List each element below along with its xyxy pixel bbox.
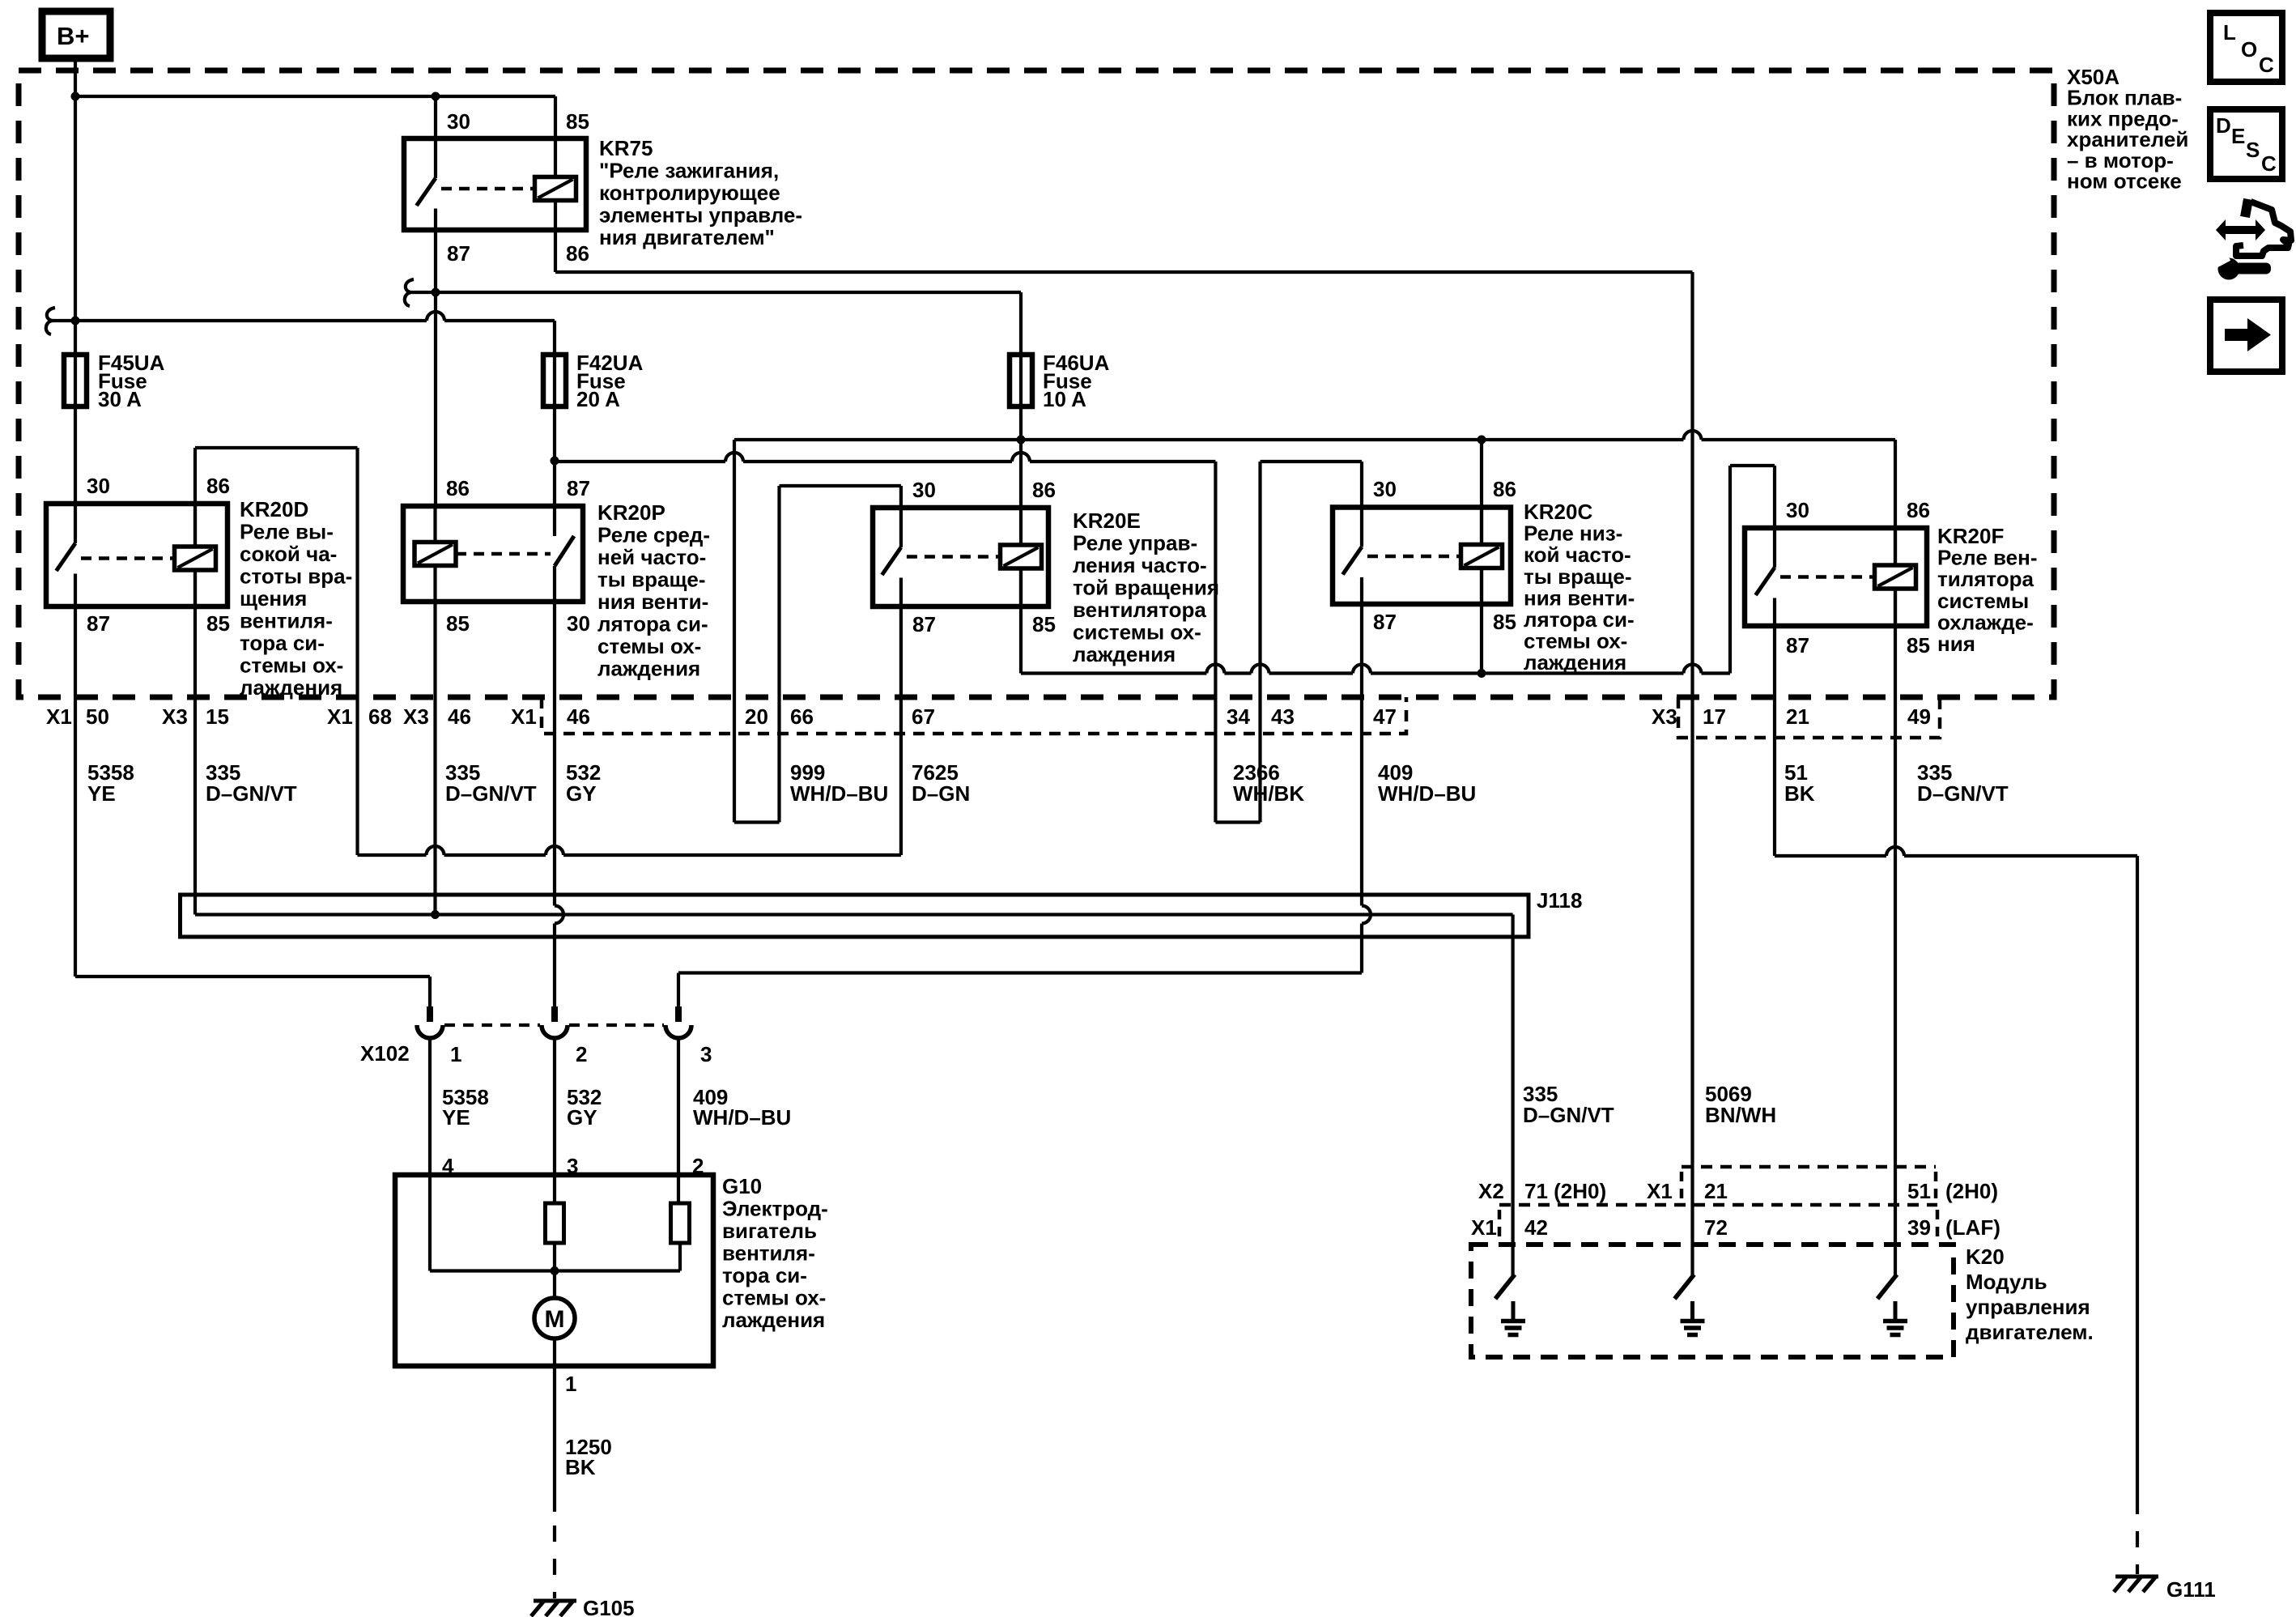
KR20D description xyxy=(240,497,352,700)
svg-text:20 A: 20 A xyxy=(576,387,620,411)
svg-text:X1: X1 xyxy=(1471,1215,1497,1240)
svg-text:Электрод-: Электрод- xyxy=(722,1197,828,1221)
fuse F45UA xyxy=(64,355,87,406)
svg-text:WH/D–BU: WH/D–BU xyxy=(1378,781,1476,806)
relay KR20D xyxy=(46,504,227,606)
wire KR20F-87 51 BK xyxy=(1775,626,2137,1498)
svg-text:85: 85 xyxy=(566,109,589,134)
K20 connector row 2 xyxy=(1499,1205,1937,1240)
svg-text:ния: ния xyxy=(1937,632,1975,656)
icon LOC box xyxy=(2210,13,2282,82)
svg-text:D–GN/VT: D–GN/VT xyxy=(1917,781,2009,806)
wire KR20P-30 532 GY xyxy=(555,602,563,1007)
svg-text:39: 39 xyxy=(1907,1215,1931,1240)
fuse F42UA xyxy=(543,355,566,406)
svg-text:WH/BK: WH/BK xyxy=(1233,781,1304,806)
svg-text:YE: YE xyxy=(87,781,116,806)
svg-text:86: 86 xyxy=(1032,478,1056,502)
label wire 51 BK xyxy=(1784,760,1815,806)
label wire 409 WH/D-BU xyxy=(1378,760,1476,806)
svg-text:лаждения: лаждения xyxy=(1073,642,1176,666)
svg-text:WH/D–BU: WH/D–BU xyxy=(790,781,888,806)
label wire 409 WH/D-BU b xyxy=(693,1085,791,1130)
wire KR20D-86 route xyxy=(195,448,358,855)
connector sub-box X1/X3 left xyxy=(542,697,1406,734)
jumper 999 WH/D-BU xyxy=(734,820,780,823)
svg-text:KR20C: KR20C xyxy=(1524,500,1592,524)
svg-text:87: 87 xyxy=(447,241,470,266)
wire F46UA out xyxy=(1017,406,1026,508)
svg-text:30: 30 xyxy=(912,478,936,502)
fuse F46UA label xyxy=(1043,351,1110,411)
svg-text:X102: X102 xyxy=(360,1041,410,1066)
ground G111 label xyxy=(2166,1577,2216,1602)
wire B+ to F42UA fuse xyxy=(46,308,555,355)
ground G111 lead xyxy=(2136,1498,2139,1574)
svg-text:Реле низ-: Реле низ- xyxy=(1524,521,1622,546)
icon adjust hand with arrow and wrench xyxy=(2213,199,2291,280)
svg-text:43: 43 xyxy=(1271,704,1295,729)
wire KR20C-85 drop xyxy=(1480,568,1483,674)
svg-text:(LAF): (LAF) xyxy=(1945,1215,2000,1240)
svg-text:WH/D–BU: WH/D–BU xyxy=(693,1105,791,1130)
svg-text:стоты вра-: стоты вра- xyxy=(240,564,352,589)
svg-text:30: 30 xyxy=(567,611,590,636)
K20 connector row 1 xyxy=(1682,1167,1936,1202)
svg-text:X1: X1 xyxy=(327,704,353,729)
svg-text:тора си-: тора си- xyxy=(240,631,325,655)
svg-text:управления: управления xyxy=(1966,1295,2090,1319)
svg-text:47: 47 xyxy=(1373,704,1397,729)
svg-text:элементы управле-: элементы управле- xyxy=(599,203,802,228)
wire X102-3 to G10 xyxy=(677,1038,680,1203)
svg-text:тора си-: тора си- xyxy=(722,1263,807,1287)
label wire 7625 D-GN xyxy=(912,760,970,806)
svg-text:21: 21 xyxy=(1704,1179,1728,1203)
svg-text:D–GN/VT: D–GN/VT xyxy=(445,781,537,806)
KR20F pin labels xyxy=(1786,498,1930,657)
svg-text:лятора си-: лятора си- xyxy=(597,612,708,636)
svg-text:вентиля-: вентиля- xyxy=(722,1241,815,1266)
label wire 5069 BN/WH xyxy=(1705,1082,1776,1127)
svg-text:87: 87 xyxy=(912,612,936,636)
KR75 pin labels xyxy=(447,109,589,266)
svg-text:BK: BK xyxy=(565,1455,596,1479)
svg-text:X1: X1 xyxy=(1647,1179,1673,1203)
wire 7625 bus y1056 xyxy=(358,846,901,855)
svg-text:YE: YE xyxy=(442,1105,470,1130)
svg-text:сокой ча-: сокой ча- xyxy=(240,542,337,566)
wire KR20F-85 335 D-GN/VT xyxy=(1894,589,1897,1275)
wire KR20D-85 to J118 xyxy=(193,568,197,915)
svg-text:30: 30 xyxy=(1786,498,1809,522)
svg-text:лаждения: лаждения xyxy=(240,675,342,700)
svg-text:20: 20 xyxy=(745,704,768,729)
svg-text:X3: X3 xyxy=(1652,704,1677,729)
svg-text:X1: X1 xyxy=(46,704,72,729)
wire KR75-87 drop to KR20P-86 xyxy=(434,230,437,506)
K20 switch and ground pin 42 xyxy=(1495,1274,1525,1335)
svg-text:ты враще-: ты враще- xyxy=(597,568,706,592)
K20 switch and ground pin 39 xyxy=(1877,1274,1907,1335)
svg-text:BN/WH: BN/WH xyxy=(1705,1103,1776,1127)
KR20P pin labels xyxy=(446,476,590,636)
svg-text:той вращения: той вращения xyxy=(1073,576,1219,600)
svg-text:1: 1 xyxy=(450,1042,461,1066)
svg-text:ния венти-: ния венти- xyxy=(1524,585,1635,610)
KR75 description xyxy=(599,136,802,249)
svg-text:67: 67 xyxy=(912,704,935,729)
svg-text:50: 50 xyxy=(86,704,109,729)
svg-text:K20: K20 xyxy=(1966,1245,2005,1269)
svg-text:85: 85 xyxy=(1493,610,1516,634)
svg-text:GY: GY xyxy=(567,1105,597,1130)
resistor in G10 left xyxy=(546,1203,564,1243)
svg-text:86: 86 xyxy=(566,241,589,266)
motor G10 internal wiring xyxy=(430,1175,680,1298)
splice J118 box xyxy=(181,895,1529,937)
svg-text:17: 17 xyxy=(1703,704,1726,729)
svg-text:KR20P: KR20P xyxy=(597,500,665,525)
svg-text:ния венти-: ния венти- xyxy=(597,589,708,614)
svg-text:B+: B+ xyxy=(57,22,90,50)
svg-text:контролирующее: контролирующее xyxy=(599,181,780,205)
svg-text:Реле сред-: Реле сред- xyxy=(597,523,710,547)
K20 row 1 labels xyxy=(1478,1179,1998,1203)
wire F42UA out xyxy=(551,406,559,506)
label wire 2366 WH/BK xyxy=(1233,760,1304,806)
svg-text:ном отсеке: ном отсеке xyxy=(2067,169,2182,194)
wire KR20F-30 route xyxy=(1730,466,1775,674)
svg-text:87: 87 xyxy=(1786,633,1809,657)
svg-text:L: L xyxy=(2223,20,2236,45)
svg-text:ты враще-: ты враще- xyxy=(1524,564,1632,589)
svg-text:лаждения: лаждения xyxy=(597,657,700,681)
connector sub-box X3 right xyxy=(1678,697,1940,738)
svg-text:J118: J118 xyxy=(1537,888,1582,913)
svg-text:49: 49 xyxy=(1907,704,1931,729)
svg-text:X3: X3 xyxy=(162,704,188,729)
G10 pin1 label xyxy=(565,1372,576,1396)
fuse block X50A label xyxy=(2067,65,2188,194)
motor G10 description xyxy=(722,1174,828,1332)
svg-text:E: E xyxy=(2231,124,2245,148)
svg-text:86: 86 xyxy=(1493,477,1516,501)
svg-text:Реле вен-: Реле вен- xyxy=(1937,546,2037,570)
svg-text:KR20E: KR20E xyxy=(1073,509,1141,533)
svg-text:30: 30 xyxy=(87,474,110,498)
icon DESC box xyxy=(2210,109,2282,179)
svg-text:G105: G105 xyxy=(583,1596,635,1617)
label wire 5358 YE b xyxy=(442,1085,489,1130)
wire KR20D-87 5358 YE xyxy=(75,606,430,1007)
wire KR20E-85 to H5 xyxy=(1019,568,1023,674)
svg-text:GY: GY xyxy=(566,781,597,806)
svg-text:M: M xyxy=(545,1306,565,1333)
wire pin20 drop xyxy=(733,440,736,823)
svg-text:D–GN/VT: D–GN/VT xyxy=(1523,1103,1614,1127)
svg-text:KR20F: KR20F xyxy=(1937,524,2004,548)
connector X102 pin 3 xyxy=(665,1006,691,1038)
KR20E description xyxy=(1073,509,1219,666)
wire KR75-87 to F46UA fuse xyxy=(405,279,1021,355)
label wire 335 D-GN/VT a xyxy=(206,760,297,806)
svg-text:72: 72 xyxy=(1704,1215,1728,1240)
svg-text:42: 42 xyxy=(1524,1215,1548,1240)
svg-text:лаждения: лаждения xyxy=(722,1308,825,1332)
svg-text:BK: BK xyxy=(1784,781,1815,806)
wire KR20C-87 409 WH/D-BU xyxy=(678,604,1371,1007)
svg-text:D: D xyxy=(2216,113,2231,138)
svg-text:O: O xyxy=(2241,37,2257,62)
label wire 335 D-GN/VT d xyxy=(1523,1082,1614,1127)
KR20D pin labels xyxy=(87,474,230,636)
module K20 label xyxy=(1966,1245,2094,1344)
svg-text:3: 3 xyxy=(700,1042,712,1066)
svg-text:лаждения: лаждения xyxy=(1524,650,1626,674)
relay KR20P xyxy=(403,506,583,602)
wire pin43 to KR20C-30 xyxy=(1261,462,1363,823)
relay KR75 xyxy=(404,138,586,230)
svg-text:46: 46 xyxy=(567,704,590,729)
connector X102 pin numbers xyxy=(450,1042,712,1066)
svg-text:34: 34 xyxy=(1227,704,1250,729)
svg-text:C: C xyxy=(2259,53,2274,77)
ground G111 xyxy=(2114,1577,2158,1592)
wire 5069 BN/WH vertical xyxy=(1690,272,1694,1275)
wire G10 pin1 1250 BK xyxy=(553,1366,556,1598)
motor G10 box xyxy=(395,1175,713,1366)
fuse block X50A dashed border xyxy=(19,70,2054,697)
svg-text:"Реле зажигания,: "Реле зажигания, xyxy=(599,159,779,183)
label wire 335 D-GN/VT b xyxy=(445,760,537,806)
ground G105 label xyxy=(583,1596,635,1617)
svg-text:KR20D: KR20D xyxy=(240,497,308,521)
svg-text:D–GN: D–GN xyxy=(912,781,970,806)
splice J118 label xyxy=(1537,888,1582,913)
svg-text:стемы ох-: стемы ох- xyxy=(597,634,701,658)
label wire 335 D-GN/VT c xyxy=(1917,760,2009,806)
svg-text:X3: X3 xyxy=(403,704,429,729)
svg-text:15: 15 xyxy=(206,704,229,729)
wire pin34 drop xyxy=(1214,462,1217,823)
wire KR75-86 bus y336 xyxy=(555,230,1693,272)
svg-text:вентилятора: вентилятора xyxy=(1073,598,1206,622)
svg-text:(2H0): (2H0) xyxy=(1945,1179,1998,1203)
KR20P description xyxy=(597,500,710,681)
svg-text:Модуль: Модуль xyxy=(1966,1270,2047,1294)
svg-text:51: 51 xyxy=(1907,1179,1931,1203)
svg-text:10 A: 10 A xyxy=(1043,387,1086,411)
svg-text:C: C xyxy=(2261,151,2277,176)
icon next arrow box xyxy=(2210,300,2282,372)
label wire 532 GY b xyxy=(567,1085,602,1130)
svg-text:охлажде-: охлажде- xyxy=(1937,610,2034,634)
label wire 532 GY xyxy=(566,760,601,806)
connector X102 pin 1 xyxy=(417,1006,443,1038)
wire 335 bus y831 xyxy=(1021,665,1730,679)
svg-text:щения: щения xyxy=(240,586,307,611)
svg-text:87: 87 xyxy=(87,611,110,636)
svg-text:ней часто-: ней часто- xyxy=(597,545,706,569)
wire motor to box bottom xyxy=(553,1338,556,1366)
svg-text:30: 30 xyxy=(1373,477,1397,501)
fuse F46UA xyxy=(1010,355,1032,406)
svg-text:86: 86 xyxy=(206,474,230,498)
svg-text:1: 1 xyxy=(565,1372,576,1396)
svg-text:85: 85 xyxy=(206,611,230,636)
svg-text:68: 68 xyxy=(368,704,392,729)
svg-text:46: 46 xyxy=(448,704,471,729)
svg-text:66: 66 xyxy=(790,704,814,729)
svg-text:вигатель: вигатель xyxy=(722,1219,817,1243)
svg-text:вентиля-: вентиля- xyxy=(240,609,333,633)
wire 2366 bus y570 xyxy=(555,453,1215,462)
wire X102-1 to G10 xyxy=(428,1038,432,1175)
motor M symbol xyxy=(534,1298,575,1338)
connector X102 pin 2 xyxy=(542,1006,568,1038)
svg-text:двигателем.: двигателем. xyxy=(1966,1320,2094,1344)
KR20C description xyxy=(1524,500,1635,674)
svg-text:KR75: KR75 xyxy=(599,136,653,160)
svg-text:85: 85 xyxy=(1032,612,1056,636)
G10 pin numbers top xyxy=(442,1154,704,1178)
K20 switch and ground pin 72 xyxy=(1675,1274,1705,1335)
svg-text:ния двигателем": ния двигателем" xyxy=(599,225,775,249)
svg-text:кой часто-: кой часто- xyxy=(1524,543,1631,567)
wire top bus y119 xyxy=(71,92,556,139)
splice J118 bus xyxy=(195,915,1513,1276)
svg-text:Реле вы-: Реле вы- xyxy=(240,520,334,544)
wire KR20C-86 drop xyxy=(1480,440,1483,546)
svg-text:87: 87 xyxy=(1373,610,1397,634)
KR20E pin labels xyxy=(912,478,1056,636)
svg-text:X1: X1 xyxy=(511,704,537,729)
svg-text:85: 85 xyxy=(446,611,470,636)
svg-text:30: 30 xyxy=(447,109,470,134)
power node B+ xyxy=(42,11,110,58)
svg-text:86: 86 xyxy=(1907,498,1930,522)
svg-text:системы: системы xyxy=(1937,589,2029,613)
svg-text:стемы ох-: стемы ох- xyxy=(722,1286,826,1310)
wire KR20F-86 drop xyxy=(1894,440,1897,565)
connector X102 label xyxy=(360,1041,410,1066)
resistor in G10 right xyxy=(671,1203,690,1243)
svg-text:87: 87 xyxy=(567,476,590,500)
svg-text:X2: X2 xyxy=(1478,1179,1504,1203)
wire KR20P-85 to J118 xyxy=(431,602,440,919)
svg-text:S: S xyxy=(2246,138,2260,162)
svg-text:G10: G10 xyxy=(722,1174,762,1198)
svg-text:85: 85 xyxy=(1907,633,1930,657)
label wire 1250 BK xyxy=(565,1435,612,1479)
connector X102 dashes xyxy=(444,1023,664,1027)
wire X102-2 to G10 xyxy=(553,1038,556,1203)
label wire 5358 YE xyxy=(87,760,134,806)
wire KR20E-30 route xyxy=(780,486,901,823)
svg-text:21: 21 xyxy=(1786,704,1809,729)
svg-text:ления часто-: ления часто- xyxy=(1073,553,1207,577)
fuse F45UA label xyxy=(98,351,165,411)
svg-text:системы ох-: системы ох- xyxy=(1073,620,1201,645)
svg-text:G111: G111 xyxy=(2166,1577,2216,1602)
svg-text:стемы ох-: стемы ох- xyxy=(1524,629,1627,653)
svg-text:2: 2 xyxy=(576,1042,587,1066)
wire 999 bus y543 xyxy=(734,431,1895,445)
relay KR20F xyxy=(1745,528,1927,626)
module K20 dashed box xyxy=(1471,1245,1954,1357)
svg-text:Реле управ-: Реле управ- xyxy=(1073,531,1197,555)
wire B+ feed down xyxy=(74,58,77,355)
wire KR20E-87 7625 D-GN xyxy=(899,606,903,855)
label wire 999 WH/D-BU xyxy=(790,760,888,806)
KR20C pin labels xyxy=(1373,477,1516,634)
relay KR20E xyxy=(873,508,1048,606)
svg-text:D–GN/VT: D–GN/VT xyxy=(206,781,297,806)
svg-text:тилятора: тилятора xyxy=(1937,567,2035,591)
wire F45UA out xyxy=(74,406,77,504)
svg-text:лятора си-: лятора си- xyxy=(1524,607,1635,632)
jumper 2366 WH/BK xyxy=(1215,820,1260,823)
wire KR75 pin30 drop xyxy=(434,96,437,138)
K20 row 2 labels xyxy=(1471,1215,2000,1240)
svg-text:71 (2H0): 71 (2H0) xyxy=(1524,1179,1606,1203)
svg-text:30 A: 30 A xyxy=(98,387,142,411)
connector pin labels row xyxy=(46,704,1931,729)
ground G105 xyxy=(531,1601,576,1616)
relay KR20C xyxy=(1333,508,1511,605)
KR20F description xyxy=(1937,524,2037,656)
fuse F42UA label xyxy=(576,351,644,411)
svg-text:86: 86 xyxy=(446,476,470,500)
svg-text:стемы ох-: стемы ох- xyxy=(240,653,343,678)
